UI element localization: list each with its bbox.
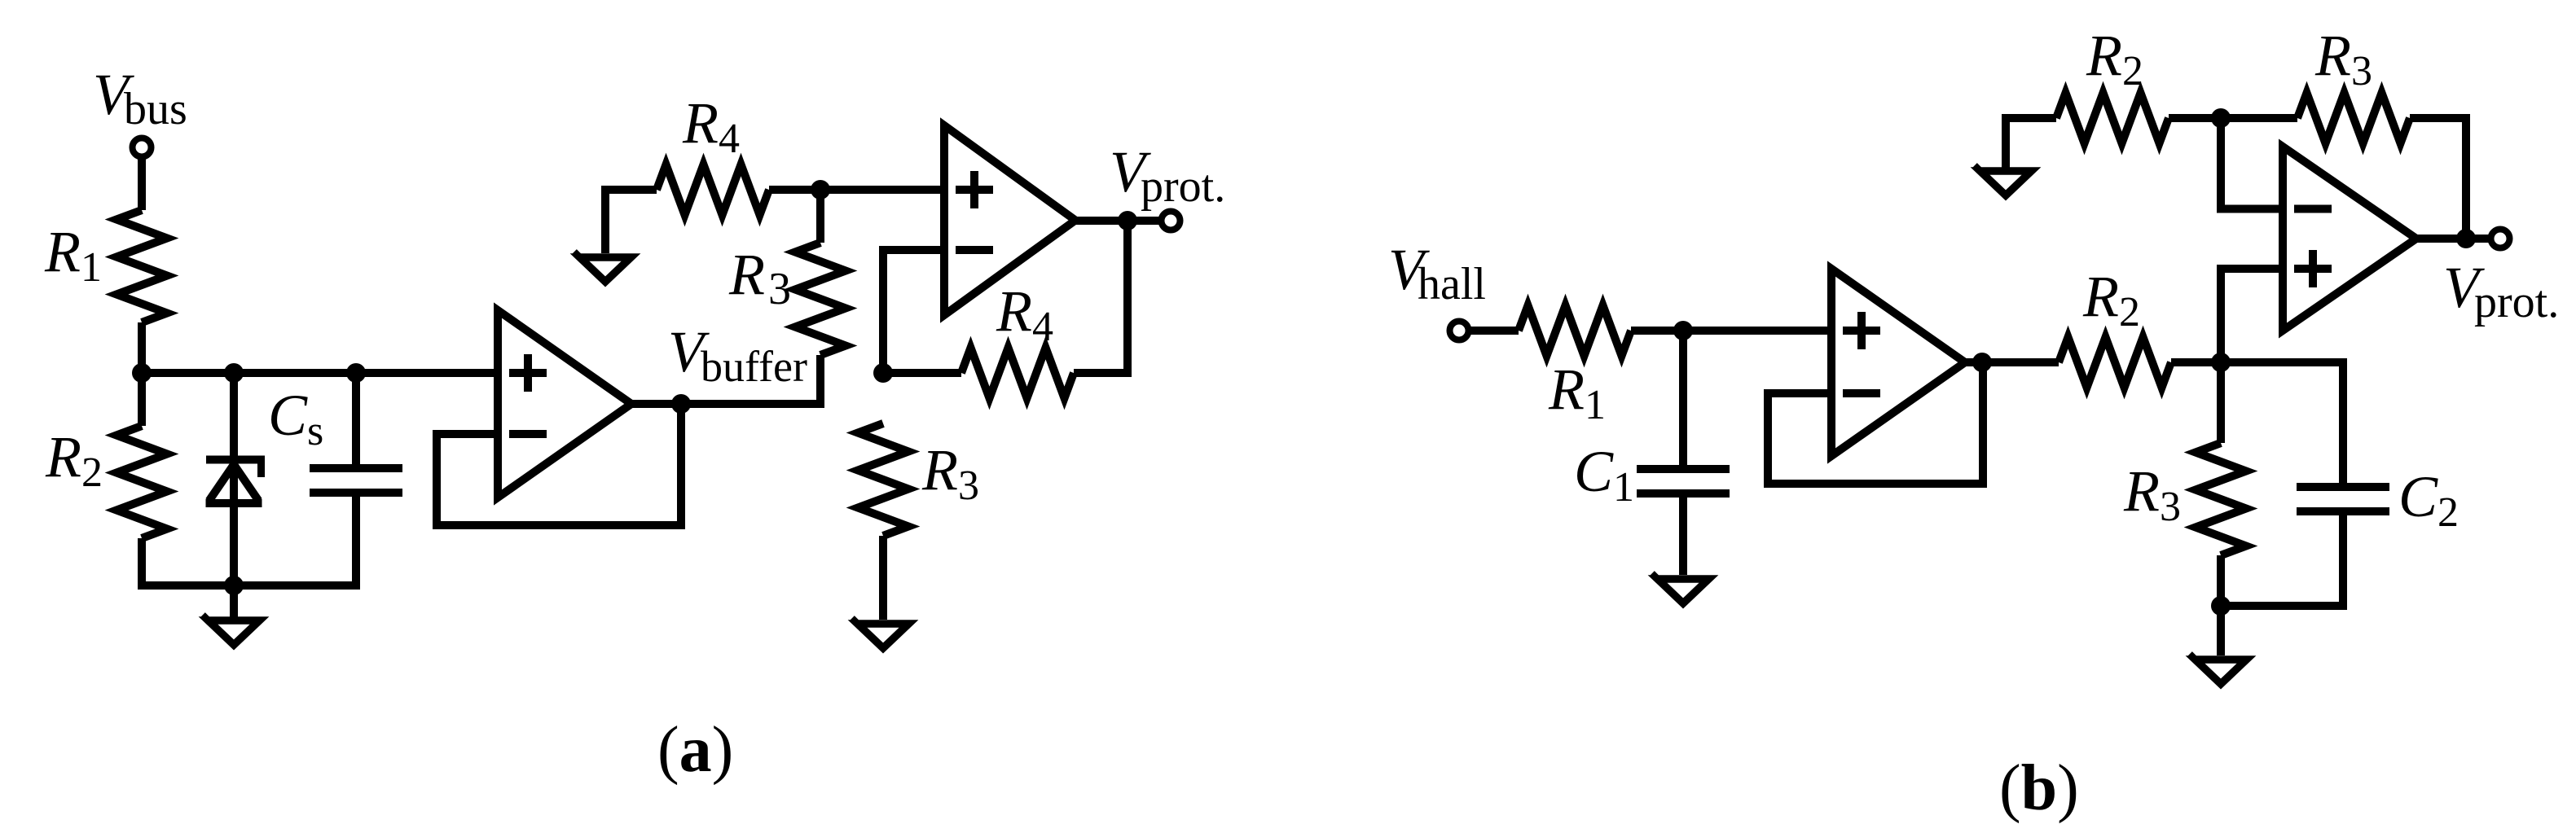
resistor R4 grounded (a) — [657, 164, 769, 215]
node R2/R3/C2 (b) — [2211, 353, 2231, 372]
resistor R1 — [116, 210, 167, 373]
node zener top — [224, 363, 244, 383]
wire U2 inverting stub — [883, 250, 944, 373]
wire U3 feedback loop — [1768, 362, 1983, 484]
node junction R1/R2 input — [132, 363, 152, 383]
wire R4 to ground (a) — [605, 190, 657, 253]
wire V_hall to R1 (b) — [1467, 327, 1519, 335]
resistor R3 top (b) — [2221, 93, 2410, 143]
node zener bottom — [224, 576, 244, 595]
wire zener branch — [230, 373, 238, 585]
wire input row (a) — [142, 369, 498, 377]
resistor R3 lower (b) — [2196, 362, 2246, 606]
wire U2 output — [1075, 217, 1162, 225]
op-amp U2 — [944, 125, 1075, 315]
node U2 inverting junction — [873, 363, 893, 383]
terminal V_hall — [1450, 322, 1469, 340]
node R4/R3 junction (a) — [811, 180, 830, 199]
resistor R2 top (b) — [2056, 93, 2221, 143]
ground R3 (a) — [852, 618, 909, 648]
capacitor C1 — [1637, 331, 1730, 575]
terminal V_prot (a) — [1162, 212, 1180, 230]
wire U3 output — [1965, 358, 2059, 366]
ground divider (a) — [203, 615, 260, 645]
resistor R2 middle (b) — [2059, 337, 2221, 388]
wire U4 inverting stub — [2221, 118, 2283, 209]
terminal V_prot (b) — [2491, 230, 2510, 248]
terminal V_bus — [133, 138, 152, 157]
node R2/R3 top (b) — [2211, 108, 2231, 128]
wire to ground (a) divider — [230, 585, 238, 620]
ground R2 top (b) — [1975, 165, 2032, 195]
wire R2 top to ground — [2006, 118, 2056, 168]
resistor R2 — [116, 373, 167, 585]
node V_prot (a) — [1118, 211, 1137, 230]
op-amp U3 buffer (b) — [1831, 269, 1965, 456]
resistor R4 feedback (a) — [883, 348, 1074, 398]
wire bottom rail (b) — [2221, 602, 2347, 610]
op-amp U1 buffer — [498, 310, 631, 498]
wire R4 feedback riser — [1074, 221, 1128, 373]
wire node to C2 top — [2221, 358, 2347, 366]
wire U1 feedback loop — [437, 404, 681, 525]
ground C1 (b) — [1652, 573, 1709, 603]
capacitor Cs — [310, 373, 402, 585]
node R3/C2 bottom (b) — [2211, 596, 2231, 616]
wire bottom rail (a) — [138, 581, 360, 590]
svg-text:(a): (a) — [657, 714, 733, 786]
capacitor C2 — [2297, 362, 2389, 606]
wire input row (b) — [1683, 327, 1831, 335]
wire U1 output V_buffer — [631, 355, 820, 404]
resistor R3 lower (a) — [858, 423, 908, 620]
ground R4 (a) — [574, 252, 631, 282]
wire node to U4 plus — [2221, 269, 2283, 362]
wire to ground (b) — [2217, 606, 2225, 655]
wire U4 output — [2416, 235, 2491, 243]
wire top row (a) — [769, 186, 944, 194]
wire R3 feedback riser (b) — [2410, 118, 2466, 239]
node U3 output — [1972, 353, 1992, 372]
resistor R1 (b) — [1519, 305, 1683, 356]
op-amp U4 (b) — [2283, 147, 2416, 331]
node V_prot (b) — [2456, 229, 2476, 248]
resistor R3 upper (a) — [795, 190, 846, 355]
node V_buffer — [671, 394, 691, 414]
wire V_bus to R1 — [138, 156, 146, 210]
svg-text:(b): (b) — [1999, 752, 2079, 824]
ground bottom (b) — [2190, 654, 2247, 684]
node R1/C1 (b) — [1673, 321, 1693, 340]
node Cs top — [346, 363, 366, 383]
zener diode D1 — [206, 460, 266, 504]
